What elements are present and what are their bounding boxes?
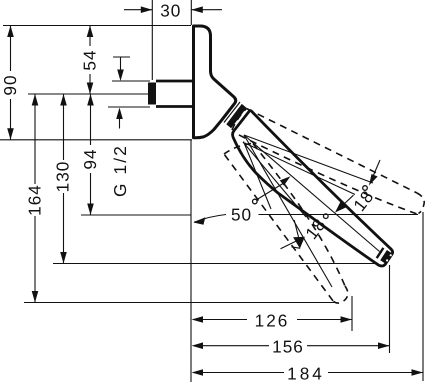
G 1/2 lower arrow tail: [119, 119, 121, 129]
dimension 90 line: [10, 26, 12, 72]
lower dashed outline left edge: [224, 154, 333, 301]
svg-text:54: 54: [80, 49, 100, 70]
dimension 164 line: [34, 94, 36, 184]
thin axis line of handshower: [244, 135, 380, 252]
50 deg leader arrowhead on axis: [280, 176, 291, 185]
dimension 30 line right tail: [191, 9, 222, 11]
svg-text:50: 50: [231, 204, 252, 224]
dimension 30 arrow right: [191, 6, 203, 13]
wall bracket outline: [194, 26, 236, 138]
extension line pipe top edge left: [112, 80, 150, 82]
upper dashed outline upper edge: [247, 109, 418, 194]
svg-text:156: 156: [272, 337, 304, 357]
dimension 184 arrow left: [192, 369, 204, 376]
svg-text:184: 184: [287, 363, 325, 383]
vertical extension line right x=423: [422, 212, 424, 381]
dimension 130 arrow top: [60, 94, 67, 106]
dimension 156 arrow right: [378, 342, 390, 349]
extension line top-right of 30 dim (wall face extended up): [190, 0, 192, 25]
dimension 54 line: [89, 26, 91, 47]
dimension 126 line: [203, 319, 247, 321]
svg-text:126: 126: [255, 310, 290, 330]
cap white dot 1: [390, 254, 392, 256]
G 1/2 lower arrow: [116, 108, 123, 120]
thin inner fan line: [244, 142, 272, 210]
supply pipe top edge: [156, 80, 192, 83]
reference line y=215 left part (94 dim datum): [81, 214, 192, 216]
cap black band: [383, 252, 390, 262]
supply pipe centerline extension: [28, 93, 148, 95]
18 deg upper leader line: [371, 160, 380, 181]
dimension 94 arrow top: [87, 94, 94, 106]
upper dashed outline lower edge: [233, 132, 417, 214]
upper dashed outline back face: [232, 109, 247, 131]
18 deg upper degree circle: [363, 186, 368, 191]
nut black band: [226, 104, 246, 128]
supply pipe end bar: [148, 83, 156, 105]
50 deg degree circle: [253, 199, 258, 204]
cap white slit: [379, 250, 385, 259]
svg-text:90: 90: [0, 74, 20, 95]
dimension 30 arrow left: [141, 6, 153, 13]
dimension 184 arrow right: [412, 369, 424, 376]
dimension 130 arrow bottom: [60, 252, 67, 264]
cap inner band: [377, 248, 384, 258]
18 deg arc arrow on axis pointing down-left: [335, 200, 347, 212]
vertical extension line at wall face x=191: [190, 140, 192, 382]
18 deg lower arrow pointing down: [293, 237, 305, 249]
dimension 156 arrow left: [192, 342, 204, 349]
18 deg lower arrow tail: [294, 220, 298, 237]
dimension 126 arrow left: [192, 316, 204, 323]
svg-text:G 1/2: G 1/2: [110, 144, 130, 197]
50 deg leader to axis: [257, 184, 283, 200]
svg-text:164: 164: [25, 184, 45, 216]
reference line y=215 right part (50 deg datum): [259, 214, 419, 216]
dimension 164 arrow bottom: [32, 291, 39, 303]
dimension 184 line: [203, 372, 284, 374]
dimension 30 line left tail: [124, 9, 152, 11]
dimension 54 arrow bottom: [87, 83, 94, 95]
thin line from pivot to lower dashed axis (58 deg): [244, 135, 332, 287]
lower dashed outline back face: [224, 144, 251, 155]
vertical extension line from lower dashed tip x=352: [351, 296, 353, 331]
extension line top-left of 30 dim: [151, 0, 153, 80]
reference line y=302.5 (164 dim datum): [24, 302, 337, 304]
vertical extension line from cap x=389.5: [389, 265, 391, 353]
dimension 164 arrow top: [32, 94, 39, 106]
G 1/2 upper arrow: [117, 70, 124, 82]
cap white dot 2: [386, 259, 388, 261]
dimension 90 arrow bottom: [7, 128, 14, 140]
dimension 94 arrow bottom: [87, 204, 94, 216]
upper dashed outline tip: [417, 193, 424, 214]
18 deg lower oblique line b: [292, 247, 301, 249]
thin leader line from pivot to lower 18 label: [243, 142, 306, 217]
svg-text:30: 30: [160, 1, 181, 21]
handshower outline: [233, 111, 393, 266]
dimension 90 arrow top: [7, 26, 14, 38]
18 deg lower degree circle: [324, 214, 329, 219]
18 deg lower oblique line a: [281, 238, 303, 249]
svg-text:130: 130: [53, 161, 73, 193]
lower dashed outline tip: [333, 286, 348, 303]
50 deg leader arrow to wall line: [194, 215, 226, 223]
thin leader line from pivot to upper 18 label: [245, 143, 355, 195]
reference line y=263.5 (130 dim datum): [53, 263, 376, 265]
dimension 94 line: [90, 94, 92, 145]
thin line from pivot to upper dashed axis (22 deg): [244, 135, 373, 183]
extension line wall bottom, to left: [0, 139, 192, 141]
dimension 54 arrow top: [87, 26, 94, 38]
G 1/2 upper arrow line: [120, 57, 122, 70]
extension line wall top, to left: [3, 25, 191, 27]
dimension 126 arrow right: [341, 316, 353, 323]
dimension 130 line: [63, 94, 65, 160]
dimension 156 line: [203, 345, 269, 347]
supply pipe bottom edge: [156, 105, 192, 108]
extension line pipe bottom edge left: [108, 106, 150, 108]
lower dashed outline right edge: [253, 144, 345, 287]
svg-text:94: 94: [80, 148, 100, 169]
18 deg upper leader arrowhead: [369, 174, 378, 186]
nut thin line parallel to bracket face: [224, 102, 240, 123]
